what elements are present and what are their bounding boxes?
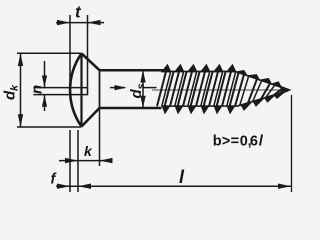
dimension k line	[59, 160, 112, 162]
screw head edge line	[80, 54, 82, 127]
thread centre line	[152, 89, 287, 91]
n top arrow	[42, 76, 47, 88]
d_s top arrow	[140, 71, 145, 83]
dimension d_k extension lines	[17, 52, 82, 54]
screw tip point	[281, 86, 292, 95]
n bottom arrow	[42, 95, 47, 107]
thread bottom root line	[162, 105, 238, 107]
d_s bottom arrow	[140, 96, 145, 108]
t right arrow	[88, 20, 101, 25]
dimension t extension lines	[69, 15, 71, 85]
dimension n line segments	[44, 61, 46, 87]
t left arrow	[57, 20, 70, 25]
shank bottom line	[100, 107, 162, 110]
thread top teeth	[162, 65, 282, 88]
f right / l left arrow	[78, 184, 91, 189]
screw head dome arc	[70, 54, 81, 127]
lower extension line apex plane	[69, 130, 71, 192]
head-shank junction line	[99, 70, 101, 108]
d_s leader arrow	[115, 85, 127, 90]
tip extension line for l	[291, 95, 293, 192]
l right arrow	[278, 184, 291, 189]
d_k top arrow	[18, 53, 23, 66]
shank top line	[100, 69, 164, 72]
k right arrow	[100, 158, 113, 163]
arrowheads	[18, 20, 291, 189]
k left arrow	[65, 158, 78, 163]
dimension d_s label leader	[110, 87, 125, 89]
svg-text:b>=0,6l: b>=0,6l	[213, 133, 264, 149]
thread top taper root line	[236, 72, 288, 90]
dimension t line	[56, 22, 104, 24]
dimension d_s line	[142, 71, 144, 108]
slot lower line	[34, 94, 88, 96]
thread bottom teeth	[162, 92, 285, 114]
d_k bottom arrow	[18, 114, 23, 127]
svg-text:n: n	[29, 85, 46, 94]
dimension f and l shared line	[56, 185, 291, 187]
lower extension line head edge plane	[77, 130, 79, 192]
dimension d_k line	[20, 53, 22, 127]
thread top root line	[163, 70, 236, 72]
svg-text:k: k	[84, 143, 93, 159]
slot upper line	[34, 87, 88, 89]
screw head upper cone flank	[82, 54, 100, 71]
thread helix diagonals	[157, 72, 283, 107]
thread bottom taper root line	[237, 91, 288, 107]
f left arrow	[57, 184, 70, 189]
screw head lower cone flank	[82, 108, 100, 127]
junction extension for k	[99, 108, 101, 166]
slot bottom line	[87, 87, 89, 95]
